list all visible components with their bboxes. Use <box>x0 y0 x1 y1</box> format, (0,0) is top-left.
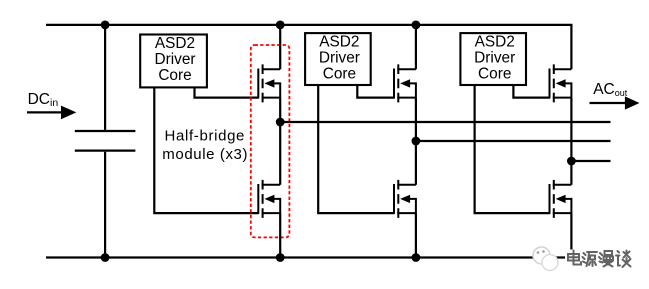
wire bottom DC bus <box>46 256 573 258</box>
AC output arrow <box>590 96 640 109</box>
wire leg1 drain from top bus <box>279 25 281 69</box>
svg-text:Core: Core <box>158 67 191 84</box>
wire U3 high-side gate <box>513 86 550 98</box>
svg-text:Driver: Driver <box>154 51 195 68</box>
DC input arrow <box>27 106 76 120</box>
transistor Q6 low-side leg3 <box>550 180 572 218</box>
watermark background mask <box>565 250 634 270</box>
junction dot top bus / C1 <box>101 21 110 30</box>
label Half-bridge module (x3) <box>162 128 248 163</box>
wire phase B output <box>416 140 611 142</box>
node phase C <box>567 157 576 166</box>
transistor Q4 low-side leg2 <box>394 180 416 218</box>
wire leg3 midpoint <box>570 98 572 185</box>
wire leg3 source to bottom bus <box>570 213 572 258</box>
svg-text:ASD2: ASD2 <box>319 34 359 51</box>
wire leg2 drain from top bus <box>415 25 417 69</box>
svg-text:ASD2: ASD2 <box>155 35 195 52</box>
svg-text:Driver: Driver <box>319 50 360 67</box>
wire leg1 source to bottom bus <box>279 213 281 258</box>
junction dot bottom bus / C1 <box>101 253 110 262</box>
svg-text:ASD2: ASD2 <box>475 34 515 51</box>
junction dot top bus / leg1 <box>276 21 285 30</box>
svg-text:Core: Core <box>478 66 511 83</box>
watermark logo <box>533 247 558 271</box>
transistor Q3 high-side leg2 <box>394 64 416 102</box>
wire leg2 midpoint <box>415 98 417 185</box>
node phase B <box>412 137 421 146</box>
watermark text 电源漫谈 <box>568 251 631 268</box>
wire top DC bus <box>46 24 573 26</box>
svg-text:Driver: Driver <box>474 50 515 67</box>
wire U1 high-side gate <box>195 88 259 98</box>
node phase A <box>276 118 285 127</box>
wire U3 low-side gate <box>475 86 550 214</box>
junction dot top bus / leg2 <box>412 21 421 30</box>
wire phase A output <box>280 121 610 123</box>
wire U2 low-side gate <box>318 86 394 214</box>
wire leg2 source to bottom bus <box>415 213 417 258</box>
wire leg3 drain from top bus <box>570 25 572 69</box>
gate driver U2 box (ASD2 Driver Core) <box>305 33 371 85</box>
svg-text:module (x3): module (x3) <box>162 146 248 163</box>
gate driver U1 box (ASD2 Driver Core) <box>140 35 207 88</box>
transistor Q5 high-side leg3 <box>550 64 572 102</box>
capacitor C1 (DC link) <box>75 25 136 258</box>
gate driver U3 box (ASD2 Driver Core) <box>460 33 526 85</box>
junction dot bottom bus / leg2 <box>412 253 421 262</box>
wire leg1 midpoint <box>279 98 281 185</box>
transistor Q2 low-side leg1 <box>258 180 280 218</box>
transistor Q1 high-side leg1 <box>258 64 280 102</box>
wire U2 high-side gate <box>357 86 394 98</box>
svg-text:Half-bridge: Half-bridge <box>165 128 246 145</box>
half-bridge module outline (red dashed) <box>251 45 290 237</box>
junction dot bottom bus / leg1 <box>276 253 285 262</box>
svg-text:Core: Core <box>323 66 356 83</box>
wire U1 low-side gate <box>154 88 258 213</box>
wire phase C output <box>571 160 610 162</box>
